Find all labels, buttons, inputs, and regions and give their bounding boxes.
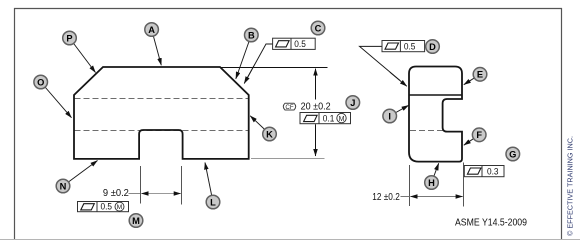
leader from text (401, 196, 410, 198)
svg-text:P: P (66, 33, 72, 43)
feature control frame M: flatness 0.5 (M) (78, 202, 129, 212)
balloon N (56, 179, 70, 193)
leader I (390, 105, 409, 116)
leader N (63, 161, 98, 187)
right view hidden dashed line (410, 130, 445, 132)
leader from text (129, 193, 141, 195)
top edge extension line (for 20 dim) (221, 67, 328, 69)
extension line left (409, 165, 411, 206)
svg-text:M: M (117, 204, 123, 211)
leader L (205, 163, 213, 203)
balloon F (472, 128, 486, 142)
dimension line lower segment with down arrow (315, 124, 317, 156)
balloon L (206, 195, 220, 209)
svg-text:M: M (132, 216, 140, 226)
svg-text:N: N (60, 181, 67, 191)
balloon M (129, 214, 143, 228)
balloon A (145, 23, 159, 37)
balloon H (425, 176, 439, 190)
svg-text:0.3: 0.3 (487, 166, 499, 176)
balloon O (34, 75, 48, 89)
extension line left (140, 166, 142, 204)
extension line right (463, 163, 465, 207)
left view part outline (74, 67, 249, 159)
dimension line with outward arrows (141, 193, 180, 195)
svg-text:K: K (266, 129, 273, 139)
svg-text:G: G (509, 149, 516, 159)
leader K (250, 116, 269, 134)
CF continuous feature symbol (283, 103, 295, 110)
balloon K (263, 127, 277, 141)
hidden (dashed) line upper, left view (75, 98, 249, 100)
svg-text:0.5: 0.5 (294, 39, 306, 49)
hidden (dashed) line lower, left view (75, 130, 249, 132)
feature control frame J: flatness 0.1 (M) (300, 113, 351, 124)
dimension line upper segment with up arrow (315, 69, 317, 100)
svg-text:J: J (350, 98, 355, 108)
balloon I (383, 109, 397, 123)
svg-text:0.1: 0.1 (323, 113, 335, 123)
svg-text:I: I (388, 111, 391, 121)
right view part outline (409, 67, 462, 162)
right view internal edge (410, 94, 462, 96)
svg-text:O: O (37, 77, 44, 87)
balloon E (473, 68, 487, 82)
leader F (464, 135, 479, 145)
leader P (70, 38, 96, 73)
leader A (152, 30, 162, 66)
svg-text:F: F (476, 130, 482, 140)
balloon P (63, 31, 77, 45)
svg-text:12 ±0.2: 12 ±0.2 (372, 192, 400, 203)
svg-text:L: L (210, 197, 216, 207)
svg-text:E: E (477, 70, 483, 80)
svg-text:20 ±0.2: 20 ±0.2 (301, 102, 331, 113)
balloon B (245, 28, 259, 42)
svg-text:B: B (248, 30, 255, 40)
leader to right chamfer (245, 44, 273, 82)
balloon C (311, 21, 325, 35)
leader H (432, 163, 439, 182)
svg-text:0.5: 0.5 (404, 41, 416, 51)
svg-text:0.5: 0.5 (101, 202, 113, 212)
bottom edge extension line (light) (251, 158, 325, 160)
extension line right (181, 166, 183, 205)
dimension line with outward arrows (410, 196, 462, 198)
svg-text:CF: CF (285, 104, 293, 111)
leader to right view left edge (360, 46, 401, 80)
svg-text:M: M (339, 116, 345, 123)
svg-text:© EFFECTIVE TRAINING INC.: © EFFECTIVE TRAINING INC. (566, 136, 575, 236)
svg-text:9 ±0.2: 9 ±0.2 (103, 188, 129, 199)
svg-text:D: D (429, 42, 436, 52)
leader B (236, 35, 252, 79)
balloon J (346, 96, 360, 110)
leader O (41, 82, 72, 118)
balloon G (506, 147, 520, 161)
svg-text:H: H (428, 178, 435, 188)
leader E (464, 74, 480, 84)
svg-text:A: A (148, 25, 155, 35)
balloon D (426, 40, 440, 54)
svg-text:C: C (315, 23, 322, 33)
balloons (34, 21, 520, 227)
svg-text:ASME Y14.5-2009: ASME Y14.5-2009 (455, 218, 527, 229)
